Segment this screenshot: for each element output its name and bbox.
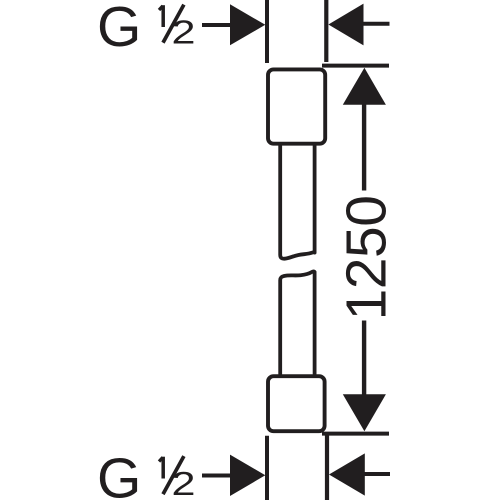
- extension line bottom-right: [325, 436, 329, 500]
- extension line nut-bottom-right: [322, 432, 389, 436]
- dimension line 1250: [343, 68, 386, 432]
- extension line top-left: [265, 0, 269, 63]
- hose upper segment: [280, 144, 314, 259]
- label G 1/2 bottom: [97, 447, 196, 500]
- svg-text:1250: 1250: [334, 196, 398, 321]
- arrow bottom-right: [329, 453, 390, 495]
- svg-text:G: G: [97, 0, 141, 59]
- svg-text:2: 2: [172, 14, 196, 51]
- label G 1/2 top: [97, 0, 196, 59]
- hose lower segment: [280, 271, 314, 374]
- arrow top-left: [202, 4, 265, 45]
- fraction slash: [163, 5, 184, 43]
- extension line nut-top-right: [322, 64, 389, 68]
- fraction numerator 1: [161, 5, 165, 27]
- extension line bottom-left: [265, 436, 269, 500]
- extension line top-right: [324, 0, 328, 62]
- arrow bottom-left: [202, 455, 265, 496]
- nut top: [268, 69, 325, 143]
- nut bottom: [268, 376, 325, 431]
- arrow top-right: [328, 4, 389, 46]
